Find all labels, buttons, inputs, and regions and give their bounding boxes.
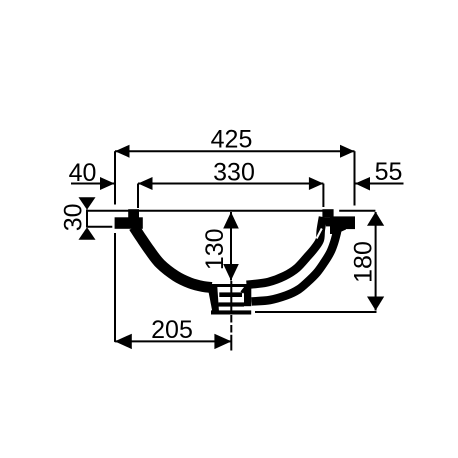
dimension 330 left arrowhead bbox=[138, 177, 153, 190]
basin right rim junction fill bbox=[326, 217, 331, 226]
dimension 55 line bbox=[355, 183, 404, 185]
drain bottom bar bbox=[211, 310, 251, 314]
dimension 425 line bbox=[115, 150, 355, 152]
dimension 30 bottom extension line bbox=[87, 226, 112, 228]
dimension 130 vertical line bbox=[230, 212, 232, 281]
dimension 205 right arrowhead bbox=[214, 334, 231, 349]
svg-text:205: 205 bbox=[151, 316, 193, 344]
dimension 205 left arrowhead bbox=[115, 334, 132, 349]
svg-text:55: 55 bbox=[375, 158, 403, 186]
svg-text:40: 40 bbox=[69, 159, 97, 187]
extension line left edge lower bbox=[114, 233, 116, 342]
dimension 130 top arrowhead bbox=[223, 212, 239, 229]
drain centerline dash 2 bbox=[230, 325, 232, 333]
dimension 30 vertical line bbox=[86, 210, 88, 228]
dimension 180 top arrowhead bbox=[367, 212, 384, 226]
drain interior white bbox=[216, 287, 244, 310]
dimension 425 left arrowhead bbox=[115, 145, 130, 158]
basin right bowl outer wall bbox=[252, 226, 339, 302]
dimension 130 bottom arrowhead bbox=[223, 264, 239, 281]
dimension 205 line bbox=[115, 340, 232, 342]
drain centerline dash 1 bbox=[230, 315, 232, 323]
basin right flange underside wedge bbox=[330, 227, 346, 234]
extension line right edge bbox=[354, 151, 356, 205]
dimension 40 arrowhead bbox=[100, 177, 115, 190]
dimension 180 bottom arrowhead bbox=[367, 297, 384, 311]
dimension 30 top arrowhead bbox=[79, 197, 96, 210]
basin right bowl interior surface slit bbox=[317, 229, 322, 239]
basin rim top surface line left bbox=[87, 210, 129, 212]
dimension 40 line bbox=[71, 183, 115, 185]
basin left flange bbox=[115, 217, 143, 229]
svg-text:130: 130 bbox=[201, 228, 229, 270]
drain top bar bbox=[211, 284, 249, 287]
svg-text:30: 30 bbox=[60, 203, 88, 231]
dimension 30 bottom arrowhead bbox=[79, 227, 96, 240]
basin right flange bbox=[330, 216, 355, 229]
dimension 55 arrowhead bbox=[355, 177, 370, 191]
extension line left edge upper bbox=[114, 151, 116, 204]
svg-text:330: 330 bbox=[213, 159, 255, 187]
svg-text:180: 180 bbox=[349, 241, 377, 283]
drain funnel right slant bbox=[242, 286, 247, 292]
dimension 180 vertical line bbox=[375, 212, 377, 311]
basin left bowl wall bbox=[134, 227, 212, 288]
basin rim top surface line right bbox=[339, 210, 375, 212]
basin left lip bbox=[128, 209, 139, 217]
dimension 330 line bbox=[138, 183, 323, 185]
drain cup left wall bbox=[208, 287, 220, 312]
basin right bowl inner wall bbox=[247, 217, 324, 285]
basin rim top surface line middle bbox=[138, 210, 323, 212]
extension line 330 right bbox=[322, 184, 324, 208]
drain centerline through cup bbox=[230, 281, 232, 311]
basin right lip bbox=[322, 209, 333, 217]
extension line 330 left bbox=[137, 184, 139, 209]
dimension 425 right arrowhead bbox=[340, 145, 355, 158]
drain thread stripe 2 bbox=[219, 302, 245, 306]
dimension 330 right arrowhead bbox=[309, 177, 324, 190]
svg-text:425: 425 bbox=[211, 126, 253, 154]
drain cup right wall bbox=[244, 286, 251, 306]
drain thread stripe 1 bbox=[219, 292, 242, 297]
drain centerline dash 3 bbox=[230, 335, 232, 351]
extension line drain bottom bbox=[255, 311, 377, 313]
